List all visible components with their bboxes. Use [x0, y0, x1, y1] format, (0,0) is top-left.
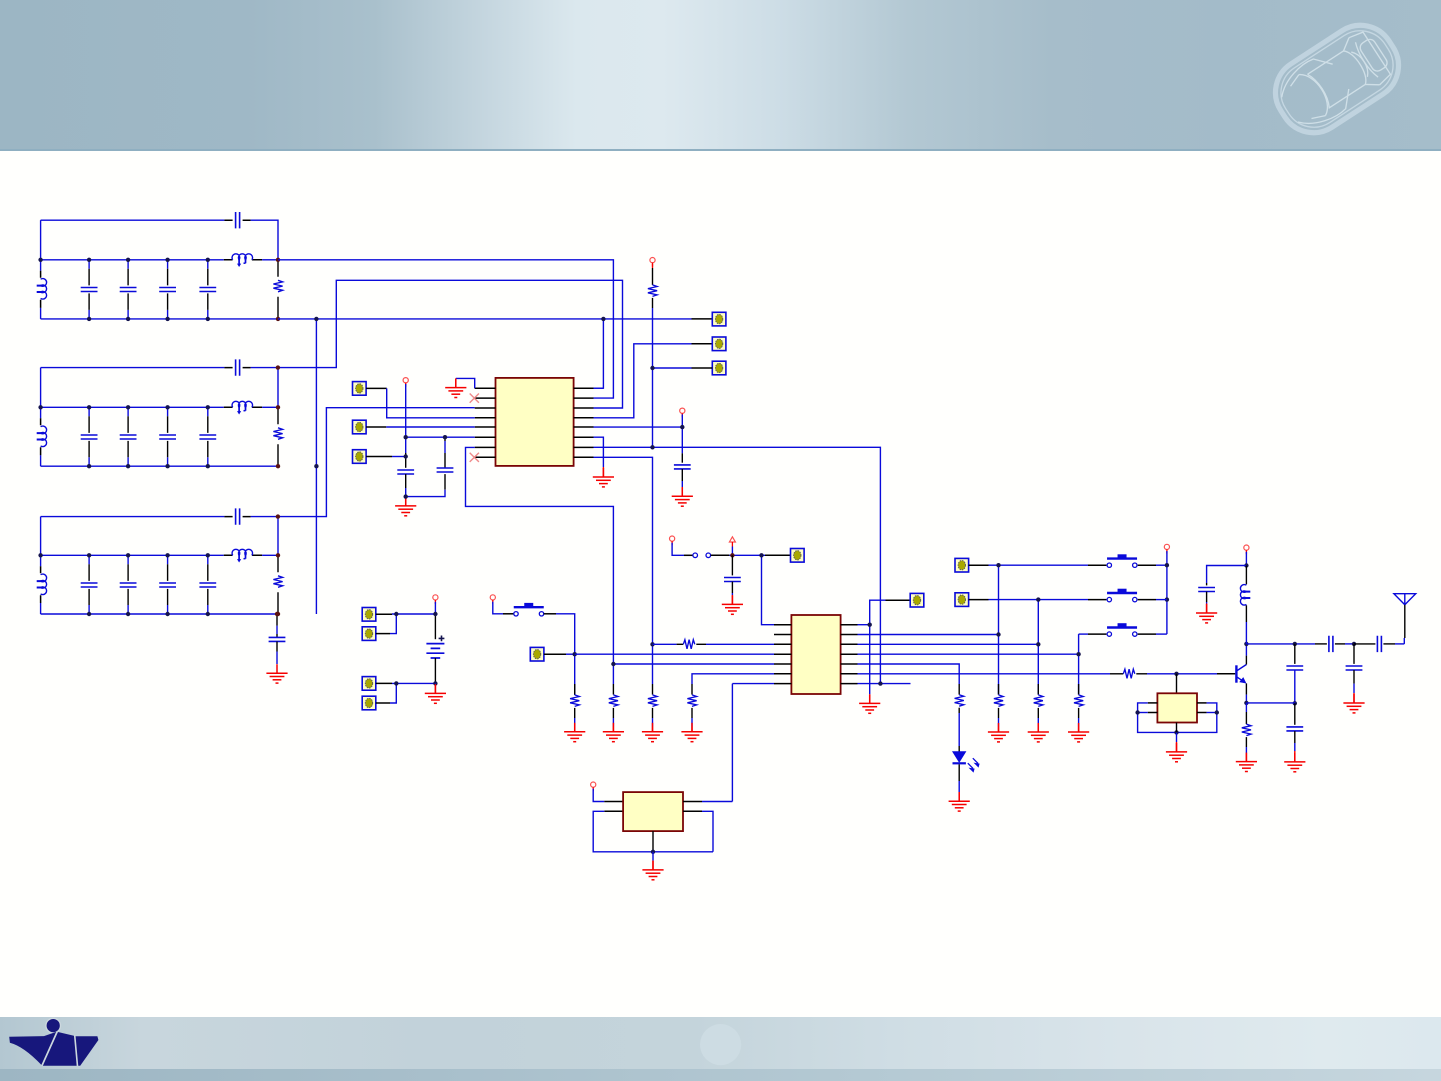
wire J13 lead	[886, 599, 911, 601]
wire L1 top row	[41, 219, 225, 221]
no-connect U1 pin8 left	[470, 453, 479, 462]
ground C12	[1284, 753, 1305, 772]
wire R12 ground stub	[1037, 718, 1039, 727]
ground X1	[1166, 743, 1187, 762]
connector J1	[353, 382, 367, 396]
wire C5 lower lead	[444, 474, 446, 490]
wire R9 ground stub	[691, 718, 693, 727]
wire ground stub VCC1	[405, 497, 407, 506]
ground battery	[425, 684, 446, 703]
wire L2 bottom row	[41, 465, 278, 467]
wire L1 bottom row	[41, 318, 278, 320]
wire C7 lower lead	[731, 582, 733, 593]
wire U1 pin5 right	[594, 426, 683, 428]
resistor R1 termination	[273, 280, 282, 292]
wire U4 right pin2 bracket	[702, 811, 713, 852]
capacitor C8 supply bypass	[1198, 588, 1215, 592]
wire LED ground stub	[958, 792, 960, 801]
wire LED cathode lead	[958, 764, 960, 781]
wire U2 pin5 to LED	[858, 664, 960, 684]
ground C13	[1343, 694, 1364, 713]
wire net1 bottom row to connectors	[278, 318, 692, 320]
resistor R10 series	[683, 640, 694, 649]
wire U2 pin3 right	[858, 643, 1039, 645]
wire antenna stem	[1404, 605, 1406, 638]
wire C12 lower lead	[1294, 731, 1296, 743]
wire S3 left lead	[1088, 564, 1106, 566]
connector J9	[362, 677, 376, 691]
ground R9	[681, 723, 702, 742]
wire X1 left bracket	[1138, 703, 1177, 733]
capacitor C1a bridge	[236, 212, 240, 228]
wire S1 right lead	[544, 613, 556, 615]
wire U2 left pin leads	[774, 625, 791, 684]
wire U1 right pin leads	[574, 388, 594, 457]
wire J10 lead	[376, 702, 390, 704]
wire U2 pin1 riser	[762, 555, 775, 624]
ground U1 pin1	[445, 379, 466, 398]
wire U4 left pin leads	[604, 802, 623, 812]
wire VRF to C8	[1207, 566, 1247, 584]
connector J13	[910, 593, 924, 607]
wire X1 bottom lead	[1176, 723, 1178, 733]
wire VS2 to jumper	[672, 543, 684, 556]
wire U4 pin2 bracket	[593, 811, 713, 852]
wire U2 power branch	[870, 600, 886, 625]
connector J2	[353, 420, 367, 434]
wire J9 to battery minus	[392, 682, 435, 684]
wire R11 ground stub	[998, 718, 1000, 727]
wire R6 bottom lead	[574, 708, 576, 718]
wire net1-net2-net3 bottom tie	[315, 319, 317, 614]
wire U1 pin6 to ground	[594, 437, 604, 462]
switch S2 jumper	[693, 553, 698, 558]
wire U2 pin4 right	[858, 653, 1079, 655]
wire S4 to VK	[1156, 599, 1167, 601]
wire J7 lead	[376, 613, 392, 615]
wire U2 pin2 right	[858, 634, 999, 636]
wire S5 right lead	[1138, 633, 1156, 635]
transistor Q1	[1236, 665, 1246, 684]
antenna ANT1	[1394, 594, 1416, 605]
wire S2 left lead	[684, 554, 693, 556]
wire J8 lead	[376, 633, 390, 635]
wire L3 left column lower	[40, 603, 42, 614]
wire R5 lower lead	[652, 298, 654, 308]
wire S5 left lead	[1088, 633, 1106, 635]
wire C5 upper lead	[444, 437, 446, 468]
power node VT	[650, 258, 655, 263]
wire U4 gnd stub	[652, 852, 654, 861]
wire VBAT stub	[434, 602, 436, 614]
wire R8 bottom lead	[652, 708, 654, 718]
wire U1 pin1 to ground	[456, 378, 475, 388]
wire C4 lower lead	[405, 474, 407, 488]
wire pin6 rail	[406, 436, 475, 438]
connector J6	[712, 361, 726, 375]
inductor L1b series coil	[232, 254, 252, 260]
wire collector node row	[1246, 643, 1294, 645]
power node VRF	[1244, 545, 1249, 550]
wire S2 right lead	[711, 554, 730, 556]
wire J3 to decoupling node	[392, 456, 406, 458]
wire U4 right pin1 riser	[702, 801, 732, 803]
wire S4 left lead	[1088, 599, 1106, 601]
capacitor C shunt x167.6 net1	[167, 260, 169, 319]
ground R11	[988, 723, 1009, 742]
switch S4	[1107, 590, 1137, 601]
inductor L2 input coil	[41, 426, 47, 447]
wire R9 bottom lead	[691, 708, 693, 718]
connector J11	[530, 647, 544, 661]
wire L1 mid row right stub	[262, 259, 278, 261]
decorative car outline logo	[1262, 12, 1411, 145]
wire antenna stem lower	[1403, 638, 1405, 644]
wire pin1 ground stub	[455, 378, 457, 387]
capacitor C12 shunt	[1286, 727, 1303, 731]
wire J3 lead	[366, 456, 392, 458]
capacitor C shunt x207.8 net1	[207, 260, 209, 319]
wire C7 upper lead	[731, 555, 733, 575]
connector J4	[712, 312, 726, 326]
wire C9 left lead	[1315, 643, 1327, 645]
wire VT stub	[652, 264, 654, 268]
resistor R8 pulldown	[648, 695, 657, 706]
power node VS2	[670, 536, 675, 541]
wire emitter tie row	[1246, 702, 1294, 704]
wire L2 left column	[40, 368, 42, 419]
capacitor C5 decoupling	[437, 468, 454, 472]
wire C7 gnd stub	[731, 593, 733, 595]
wire U1 pin7 to U2 pin5	[466, 447, 614, 684]
wire resistor column net1	[277, 260, 279, 319]
wire L1 left column lower	[40, 308, 42, 319]
capacitor C shunt x167.6 net2	[167, 407, 169, 466]
wire R13 ground stub	[1078, 718, 1080, 727]
wire U1 pin3 riser top handled above	[594, 387, 604, 389]
wire J2 to U1 pin5	[386, 426, 474, 428]
wire S1 to U2 rail	[556, 614, 575, 695]
wire R11 top lead	[998, 684, 1000, 695]
wire C12 gnd stub	[1294, 743, 1296, 751]
resistor R11 pulldown	[994, 695, 1003, 706]
wire C4 upper lead	[405, 453, 407, 468]
wire VS1 to switch	[493, 602, 503, 614]
connector J14	[955, 558, 969, 572]
wire C10 to antenna stem	[1395, 643, 1404, 645]
wire R15 right lead	[1136, 673, 1147, 675]
wire U4 bottom lead	[652, 831, 654, 852]
capacitor C3a bridge	[236, 508, 240, 524]
wire C4 to ground node	[405, 488, 407, 497]
wire pin6 gnd stub	[602, 462, 604, 467]
wire S5 to VK	[1156, 633, 1167, 635]
capacitor C shunt x89.1 net1	[88, 260, 90, 319]
wire LED to ground	[958, 781, 960, 792]
wire R15 left lead	[1110, 673, 1123, 675]
ground R8	[642, 723, 663, 742]
wire R6 top lead	[574, 684, 576, 695]
wire C8 top lead	[1206, 583, 1208, 585]
wire J14 lead	[969, 564, 989, 566]
wire R8 ground stub	[652, 718, 654, 727]
wire Q1 emitter lead	[1245, 683, 1247, 694]
wire riser pin4 to connector J5	[594, 344, 692, 418]
wire battery top lead	[434, 614, 436, 639]
power node VCC1	[403, 378, 408, 383]
wire J6 row	[653, 367, 692, 369]
wire R10 right lead	[696, 643, 706, 645]
power node VBAT	[433, 595, 438, 600]
ground decoupling	[395, 497, 416, 516]
wire L3 left column	[40, 517, 42, 567]
wire R6 ground stub	[574, 718, 576, 727]
connector J8	[362, 627, 376, 641]
wire U2 pin1 right	[858, 624, 870, 626]
wire R14 top lead	[958, 684, 960, 695]
connector J3	[353, 450, 367, 464]
wire U2 gnd column	[869, 625, 871, 695]
wire C13 top lead	[1353, 644, 1355, 664]
wire L2 top row right	[251, 368, 278, 408]
wire S5 row left	[1079, 633, 1088, 635]
wire X1 top lead	[1176, 674, 1178, 694]
op-amp U1 transmitter IC	[496, 378, 574, 466]
ground C7	[722, 595, 743, 614]
wire X1 right bracket	[1177, 703, 1217, 733]
wire R14 to LED	[958, 713, 960, 746]
wire rail to U2 pin4	[575, 653, 774, 655]
wire C12 top lead	[1294, 703, 1296, 725]
wire sense3 column	[1078, 634, 1080, 695]
wire Q1 collector	[1245, 644, 1247, 656]
capacitor C4 decoupling	[397, 470, 414, 474]
wire L3 mid row right stub	[262, 554, 278, 556]
wire VU4 to U4 pin1	[593, 789, 604, 802]
wire match node row	[1295, 643, 1315, 645]
wire U2 right pin leads	[841, 625, 858, 684]
wire X1 left pin2	[1138, 712, 1148, 714]
wire C8 lower lead	[1206, 592, 1208, 602]
wire C9 to node2	[1345, 643, 1354, 645]
wire U2 gnd stub	[869, 694, 871, 703]
wire S4 right lead	[1138, 599, 1156, 601]
wire R7 top lead	[612, 684, 614, 695]
wire R10 to U2 pin3	[706, 643, 774, 645]
wire net1 mid row to U1 pin2 riser	[278, 260, 613, 398]
wire X1 right pin2	[1207, 712, 1217, 714]
capacitor C6 bypass	[674, 465, 691, 469]
resistor R7 pulldown	[609, 695, 618, 706]
wire C9 right lead	[1335, 643, 1345, 645]
wire U2 pin7 to U4	[732, 684, 774, 802]
wire net3 AC ground column	[276, 614, 278, 637]
wire U2 pin7 right	[858, 683, 911, 685]
wire C6 lower lead	[681, 469, 683, 481]
decorative circle	[700, 1024, 741, 1065]
capacitor C3g coupling	[269, 637, 286, 641]
ground LED	[949, 792, 970, 811]
wire C11 top lead	[1294, 644, 1296, 664]
wire L2 mid row right stub	[262, 406, 278, 408]
wire U2 pin6 long row	[858, 673, 1111, 675]
wire R8 top lead	[652, 684, 654, 695]
wire net3 cap lower lead	[276, 642, 278, 652]
wire L3 top row	[41, 516, 225, 518]
wire C5 return	[406, 490, 445, 497]
capacitor C9 coupling	[1329, 636, 1333, 652]
wire L3 mid row	[41, 554, 224, 556]
wire battery bottom lead	[434, 658, 436, 683]
op-amp U2 encoder IC	[791, 615, 840, 694]
wire J10 riser	[390, 683, 396, 703]
capacitor C shunt x89.1 net3	[88, 555, 90, 614]
wire J11 lead	[544, 653, 566, 655]
wire R5 to J6 row	[652, 308, 654, 447]
ground R16	[1236, 753, 1257, 772]
wire R12 bottom lead	[1037, 708, 1039, 718]
wire C13 gnd stub	[1353, 684, 1355, 693]
ground R12	[1028, 723, 1049, 742]
wire Q1 emitter	[1245, 695, 1247, 703]
wire L1 mid row	[41, 259, 224, 261]
wire sense1 column	[998, 565, 1000, 694]
wire net3 top row riser to U1 pin3	[278, 408, 475, 517]
capacitor C shunt x207.8 net2	[207, 407, 209, 466]
wire C8 gnd stub	[1206, 602, 1208, 604]
wire U1 pin7 right to U2 pin7	[594, 447, 881, 683]
wire J7 to battery node	[392, 613, 435, 615]
wire J9 lead	[376, 682, 392, 684]
wire L2 top row	[41, 367, 225, 369]
no-connect U1 pin2	[470, 394, 479, 403]
wire L3 top row right	[251, 517, 278, 556]
ground C6	[672, 487, 693, 506]
wire X1 right pin leads	[1197, 703, 1207, 713]
ground net3	[266, 664, 287, 683]
resistor R2 termination	[273, 428, 282, 440]
capacitor C shunt x128.1 net1	[127, 260, 129, 319]
power node VU4	[591, 782, 596, 787]
wire net2 top row riser	[278, 280, 623, 408]
ground U4	[642, 861, 663, 880]
wire U4 right pin leads	[683, 802, 702, 812]
resistor R3 termination	[273, 576, 282, 587]
wire VRF stub	[1245, 552, 1247, 566]
ground U2	[859, 694, 880, 713]
wire C11 to node	[1294, 670, 1296, 703]
wire L4 bottom lead	[1245, 605, 1247, 622]
ground R7	[603, 723, 624, 742]
wire R10 left lead	[653, 643, 677, 645]
resistor R6 pulldown	[570, 695, 579, 706]
wire X1 left pin leads	[1148, 703, 1158, 713]
wire C13 lower lead	[1353, 670, 1355, 684]
wire U1 left pin leads	[475, 388, 496, 457]
wire S3 to V+	[1156, 564, 1167, 566]
wire J8 riser	[390, 614, 396, 634]
wire L3 bottom row	[41, 613, 278, 615]
node marker TP1	[729, 537, 735, 542]
connector J7	[362, 608, 376, 622]
wire TP1 node	[729, 554, 758, 556]
capacitor C shunt x167.6 net3	[167, 555, 169, 614]
wire Q1 collector lead	[1245, 656, 1247, 665]
wire J15 lead	[969, 599, 989, 601]
wire resistor column net3	[277, 555, 279, 614]
wire LED anode lead	[958, 746, 960, 752]
capacitor C shunt x128.1 net2	[127, 407, 129, 466]
wire R13 bottom lead	[1078, 708, 1080, 718]
wire J1 to U1 pin4	[387, 388, 475, 417]
wire X1 gnd stub	[1176, 732, 1178, 742]
wire U1 pin1 riser	[594, 319, 604, 388]
inductor L3b series coil	[232, 549, 252, 555]
capacitor C13 shunt	[1346, 666, 1363, 670]
wire J12 lead	[765, 554, 791, 556]
connector J5	[712, 337, 726, 351]
wire R9 top lead	[691, 684, 693, 695]
connector J10	[362, 696, 376, 710]
wire L1 top row right	[251, 220, 278, 260]
wire C10 right lead	[1383, 643, 1395, 645]
logo	[9, 1018, 98, 1065]
wire J14 row	[989, 564, 1089, 566]
capacitor C shunt x207.8 net3	[207, 555, 209, 614]
wire J15 row	[989, 599, 1089, 601]
wire R16 bottom lead	[1245, 737, 1247, 747]
ground C8	[1196, 604, 1217, 623]
wire C10 left lead	[1354, 643, 1375, 645]
connector J12	[791, 549, 805, 563]
battery BT1	[426, 636, 444, 659]
inductor L2b series coil	[232, 401, 252, 407]
capacitor C10 coupling	[1377, 636, 1381, 652]
inductor L1 input coil	[41, 279, 47, 299]
resistor R16 emitter	[1242, 724, 1251, 735]
wire J12 stub	[758, 554, 765, 556]
wire L2 left column lower	[40, 455, 42, 466]
capacitor C7	[724, 578, 741, 582]
resistor R5 bias	[648, 285, 657, 297]
wire base lead	[1217, 673, 1235, 675]
wire R15 to base	[1147, 673, 1217, 675]
capacitor C shunt x89.1 net2	[88, 407, 90, 466]
wire L1 left column	[40, 220, 42, 271]
capacitor C2a bridge	[236, 359, 240, 375]
capacitor C11 shunt	[1286, 666, 1303, 670]
wire VCC1 column	[405, 384, 407, 453]
wire VR column	[681, 414, 683, 453]
wire U2 pin6 left	[692, 674, 774, 684]
power node VS1	[490, 595, 495, 600]
wire VK column	[1166, 551, 1168, 634]
wire resistor column net2	[277, 407, 279, 466]
wire sense2 column	[1037, 600, 1039, 695]
wire R7 ground stub	[612, 718, 614, 727]
wire R14 lower lead	[958, 708, 960, 713]
resistor R15 base series	[1123, 669, 1134, 678]
wire U2 pin5 row	[613, 663, 774, 665]
wire R7 bottom lead	[612, 708, 614, 718]
wire U1 pin8 right	[594, 457, 653, 684]
ground R6	[564, 723, 585, 742]
inductor L4 RF choke	[1240, 585, 1246, 606]
wire L2 mid row	[41, 406, 224, 408]
wire L4 to collector node	[1245, 622, 1247, 644]
ground R13	[1068, 723, 1089, 742]
wire battery ground stub	[434, 682, 436, 685]
